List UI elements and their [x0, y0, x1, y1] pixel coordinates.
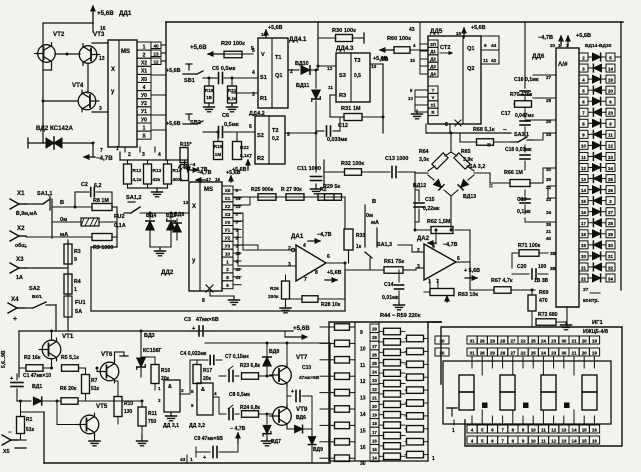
- svg-text:27: 27: [546, 75, 552, 80]
- wire R25-R27 net: [233, 196, 345, 198]
- label 0m: [60, 217, 67, 223]
- svg-text:2: 2: [417, 248, 420, 254]
- svg-text:3: 3: [288, 262, 291, 268]
- svg-text:22: 22: [372, 387, 377, 392]
- capacitor C14 label: [382, 282, 399, 301]
- svg-text:+5,6В: +5,6В: [471, 25, 486, 31]
- IC DD5 pin boxes: [428, 40, 438, 116]
- terminal X3: [10, 263, 26, 273]
- wire bottom rail: [44, 462, 330, 464]
- resistor R68 label: [473, 127, 507, 134]
- resistor R6 20k: [57, 398, 91, 405]
- ladder right resistors col2: [405, 335, 428, 458]
- svg-text:ВД14-ВД30: ВД14-ВД30: [585, 43, 612, 49]
- svg-text:ДД5: ДД5: [430, 28, 443, 35]
- diode VD8 label: [269, 349, 279, 355]
- svg-text:X1: X1: [141, 69, 147, 75]
- HG1 digit segments: [459, 375, 597, 410]
- svg-text:=: =: [489, 183, 493, 190]
- svg-text:20: 20: [582, 338, 587, 343]
- svg-text:+5,6В: +5,6В: [166, 121, 181, 127]
- resistor R23 label: [240, 363, 261, 369]
- svg-text:T3: T3: [354, 58, 361, 64]
- IC DD6 symbol: [558, 61, 568, 68]
- terminal X1: [10, 199, 26, 209]
- pins 17 16 BD2: [206, 177, 221, 182]
- svg-text:31: 31: [470, 338, 475, 343]
- wire top supply bus: [166, 21, 623, 23]
- capacitor C3 label: [184, 317, 219, 323]
- svg-text:R16: R16: [161, 368, 170, 374]
- svg-text:X: X: [111, 67, 115, 73]
- svg-text:+: +: [10, 376, 14, 382]
- zener VD11: [312, 90, 321, 101]
- svg-text:0,047мк: 0,047мк: [515, 113, 534, 119]
- svg-text:0,033мк: 0,033мк: [327, 137, 347, 143]
- svg-text:47мк×6В: 47мк×6В: [299, 375, 320, 381]
- capacitor C6: [219, 127, 223, 138]
- svg-text:19: 19: [372, 413, 377, 418]
- ground under R18: [204, 103, 215, 112]
- ladder right resistors col1: [379, 328, 405, 459]
- label 43 top: [409, 27, 415, 33]
- IC T1 body: [258, 38, 288, 108]
- capacitor C9 label: [194, 436, 223, 442]
- svg-text:1: 1: [190, 457, 193, 463]
- wire VD11 down: [315, 101, 317, 131]
- svg-text:ВД6: ВД6: [174, 212, 184, 218]
- IC BD1 y label: [111, 89, 115, 95]
- svg-text:8: 8: [226, 275, 229, 280]
- svg-text:С1 47мк×10: С1 47мк×10: [23, 373, 51, 379]
- svg-text:12: 12: [327, 66, 333, 72]
- ground under R21: [227, 103, 238, 112]
- wire VT3/VT4 collector bus to BD1: [92, 43, 108, 112]
- svg-text:КС156Г: КС156Г: [143, 348, 161, 354]
- logic gate DD3.1 label: [163, 423, 179, 429]
- svg-text:X2: X2: [225, 204, 231, 209]
- wire R72/R69 to HG1: [531, 322, 533, 327]
- svg-text:14: 14: [608, 66, 613, 71]
- transistor VT6 label: [101, 351, 113, 358]
- svg-text:30: 30: [561, 338, 566, 343]
- svg-text:T1: T1: [275, 55, 282, 61]
- IC BD1 X label: [111, 67, 115, 73]
- svg-text:13: 13: [153, 52, 159, 57]
- IC T3 body: [336, 53, 370, 102]
- wire C17 down: [524, 127, 526, 137]
- svg-text:С18 0,01мк: С18 0,01мк: [505, 147, 532, 153]
- svg-text:16: 16: [581, 210, 586, 215]
- power label +5,6V above DD6: [576, 33, 591, 39]
- svg-text:2: 2: [128, 152, 131, 158]
- IC DD6 left pin numbers: [546, 75, 552, 241]
- wire VT2/VT3 top rail: [43, 22, 93, 24]
- svg-text:R66 1М: R66 1М: [504, 170, 523, 176]
- op-amp DA1: [296, 245, 326, 281]
- svg-text:14: 14: [572, 427, 577, 432]
- capacitor C10 label: [299, 365, 320, 381]
- diode VD7 label: [271, 439, 281, 445]
- capacitor C4 label: [180, 351, 207, 357]
- svg-text:R2: R2: [257, 156, 264, 162]
- capacitor C2 label: [81, 182, 102, 189]
- wire R9 net: [26, 236, 92, 238]
- svg-text:R1: R1: [26, 417, 33, 423]
- svg-text:R 27 90к: R 27 90к: [281, 187, 302, 193]
- wire SA1.3 down: [369, 258, 371, 270]
- wire R72 net: [531, 311, 533, 322]
- power label +5,6V right of T3: [373, 56, 388, 62]
- resistor R18 1B: [205, 86, 214, 103]
- svg-text:В,9м,мА: В,9м,мА: [16, 211, 37, 217]
- pin 37 DD6: [583, 287, 600, 293]
- svg-text:30: 30: [608, 243, 613, 248]
- wire DA1 in-: [238, 265, 296, 267]
- capacitor C18: [520, 145, 530, 170]
- svg-text:контр.: контр.: [583, 298, 600, 304]
- svg-text:8: 8: [582, 122, 585, 127]
- svg-text:6: 6: [249, 124, 252, 130]
- label obsh: [15, 242, 28, 249]
- svg-text:23: 23: [551, 338, 556, 343]
- IC BD2 bottom X mark: [202, 285, 213, 304]
- svg-text:0,1мк: 0,1мк: [517, 209, 531, 215]
- ground DD3.1: [166, 412, 177, 421]
- resistor R31 label: [341, 106, 361, 112]
- svg-text:9: 9: [360, 330, 363, 336]
- svg-text:R71 100к: R71 100к: [518, 243, 541, 249]
- op-amp DA2: [424, 244, 456, 280]
- svg-text:12: 12: [360, 379, 366, 385]
- switch SA1.2: [124, 202, 140, 213]
- fuse FU1: [64, 296, 86, 317]
- svg-text:+: +: [291, 389, 294, 395]
- switch SA1.1: [26, 196, 50, 210]
- T3 pins: [327, 64, 377, 91]
- resistor group label R44-R59: [380, 313, 421, 319]
- svg-text:2: 2: [158, 398, 161, 403]
- svg-text:У2: У2: [141, 101, 147, 107]
- svg-text:&: &: [168, 384, 172, 390]
- svg-text:ВД11: ВД11: [296, 83, 309, 89]
- svg-text:10: 10: [531, 438, 536, 443]
- wire VT7 base: [271, 375, 274, 377]
- capacitor C11 label: [297, 166, 321, 172]
- IC BD1 body: [108, 40, 137, 147]
- wire DA1 out: [326, 262, 347, 265]
- svg-text:43: 43: [409, 27, 415, 33]
- svg-text:15: 15: [582, 438, 587, 443]
- svg-text:26: 26: [608, 188, 613, 193]
- svg-text:19: 19: [608, 77, 613, 82]
- wire left vertical bus: [165, 22, 167, 160]
- IC T2 labels: [257, 128, 279, 162]
- transistor VT2: [35, 43, 56, 65]
- resistor R60: [394, 47, 428, 54]
- svg-text:44: 44: [491, 43, 497, 49]
- svg-text:R33: R33: [356, 233, 365, 239]
- pin 5 T1: [251, 46, 254, 52]
- svg-text:130: 130: [124, 409, 133, 415]
- resistor R20 label: [221, 41, 245, 47]
- svg-text:25: 25: [531, 350, 536, 355]
- svg-text:7: 7: [501, 438, 504, 443]
- svg-text:VT9: VT9: [296, 406, 308, 413]
- svg-text:+5,6В: +5,6В: [327, 270, 342, 276]
- svg-text:−4,7В: −4,7В: [443, 242, 458, 248]
- wire row below DD5: [426, 124, 511, 133]
- svg-text:34: 34: [608, 276, 613, 281]
- IC DD2 label: [161, 269, 174, 276]
- diode VD9: [308, 429, 315, 463]
- svg-text:0,01мк: 0,01мк: [382, 295, 399, 301]
- svg-text:43к: 43к: [153, 177, 161, 183]
- capacitor C1 label: [23, 373, 51, 379]
- svg-text:+: +: [13, 316, 17, 323]
- svg-text:29: 29: [490, 350, 495, 355]
- svg-text:20: 20: [581, 254, 586, 259]
- svg-text:3,0к: 3,0к: [419, 157, 429, 163]
- wires into ladder: [320, 327, 329, 458]
- IC BD2 X label: [192, 204, 196, 210]
- svg-text:1: 1: [143, 44, 146, 50]
- button SB1: [183, 71, 203, 84]
- svg-text:5,1к: 5,1к: [228, 96, 237, 101]
- svg-text:4: 4: [413, 43, 416, 48]
- wire SB2 to T2 pin6: [203, 131, 255, 133]
- IC BD2 y label: [192, 258, 196, 264]
- resistor R70: [514, 101, 532, 108]
- svg-text:R70 470к: R70 470к: [510, 92, 533, 98]
- capacitor C14: [394, 270, 405, 310]
- svg-text:23: 23: [608, 111, 613, 116]
- transistor VT4 label: [72, 82, 84, 89]
- svg-text:12: 12: [581, 166, 586, 171]
- wire +5,6V feed to BD1 top: [91, 6, 95, 32]
- resistor R21 5,1k: [228, 86, 237, 103]
- svg-text:0,1А: 0,1А: [114, 223, 126, 229]
- svg-text:y: y: [111, 89, 115, 95]
- svg-text:24: 24: [541, 350, 546, 355]
- wire mid rail drop: [344, 270, 346, 311]
- svg-text:4: 4: [214, 391, 217, 396]
- svg-text:ВД3: ВД3: [144, 333, 155, 339]
- logic gate DD3.2 label: [189, 423, 205, 429]
- svg-text:41: 41: [236, 275, 241, 280]
- svg-text:3: 3: [582, 66, 585, 71]
- svg-text:Q2: Q2: [467, 66, 474, 72]
- wire R30 net: [318, 33, 364, 43]
- IC DD5 label: [430, 28, 443, 35]
- svg-text:X3: X3: [225, 212, 231, 217]
- svg-text:1: 1: [116, 146, 119, 152]
- label kontr: [583, 298, 600, 304]
- svg-text:23: 23: [372, 378, 377, 383]
- wire osc out to ladder: [310, 343, 330, 463]
- svg-text:5: 5: [252, 48, 255, 54]
- HG1 label: [583, 320, 608, 335]
- svg-text:R6 20к: R6 20к: [60, 386, 77, 392]
- capacitor C9: [196, 443, 238, 461]
- svg-text:25: 25: [608, 177, 613, 182]
- svg-text:С6: С6: [222, 113, 229, 119]
- zener VD5: [167, 212, 176, 248]
- svg-text:34: 34: [546, 210, 552, 215]
- svg-text:2: 2: [143, 53, 146, 59]
- svg-text:У3: У3: [225, 244, 231, 249]
- switch SA3.1: [511, 137, 533, 142]
- HG1 top pin rows: [467, 336, 600, 356]
- bridge R65 arm: [451, 152, 474, 171]
- resistor R71: [519, 250, 539, 257]
- DD5 bottom pin: [445, 120, 461, 133]
- svg-text:35: 35: [546, 222, 552, 227]
- diode group label VD14-VD30: [585, 43, 612, 49]
- resistor R72 label: [538, 312, 558, 318]
- svg-text:22: 22: [521, 338, 526, 343]
- DD6 top pins: [550, 36, 570, 48]
- svg-text:В: В: [60, 200, 64, 206]
- svg-text:ДА1: ДА1: [291, 233, 304, 240]
- svg-text:R69: R69: [539, 290, 549, 296]
- svg-text:0,5мк: 0,5мк: [224, 122, 239, 128]
- IC DD4.3 label: [336, 45, 354, 52]
- svg-text:−4,7В: −4,7В: [96, 155, 113, 162]
- wire left bus of VT2/VT4: [42, 23, 44, 143]
- svg-text:ДД1: ДД1: [119, 10, 132, 17]
- svg-text:SA1,2: SA1,2: [126, 195, 142, 201]
- svg-text:16: 16: [100, 26, 106, 32]
- resistor R7 51k: [82, 368, 100, 401]
- transistor VT3 label: [93, 31, 105, 38]
- IC BD2 body: [189, 182, 222, 291]
- resistor R6 label: [60, 386, 77, 392]
- svg-text:7: 7: [582, 111, 585, 116]
- resistor R2 16k: [19, 365, 52, 372]
- capacitor C3: [188, 326, 214, 336]
- svg-text:Х1: Х1: [17, 190, 25, 197]
- svg-text:10: 10: [531, 427, 536, 432]
- IC DD1 label: [119, 10, 132, 17]
- resistor R71 label: [518, 243, 541, 249]
- resistor R2 label: [24, 355, 41, 361]
- capacitor C15 label: [423, 197, 440, 212]
- ladder left numbers: [360, 330, 366, 467]
- IC BD1 MS label: [121, 49, 130, 55]
- capacitor C13: [392, 167, 415, 231]
- wire DA2 in+: [398, 245, 424, 252]
- IC DD6 right pin boxes: [579, 53, 588, 282]
- wire C8 net: [219, 397, 226, 414]
- svg-text:2: 2: [226, 267, 229, 272]
- svg-text:31: 31: [608, 254, 613, 259]
- resistor R69 label: [539, 290, 549, 304]
- svg-text:С20: С20: [517, 264, 527, 270]
- switch SA2 label: [29, 286, 43, 300]
- power label +5,6V at R20: [190, 44, 222, 56]
- svg-text:R12: R12: [133, 168, 142, 174]
- resistor R70 label: [510, 92, 533, 98]
- resistor R67 label: [491, 278, 513, 284]
- svg-text:20: 20: [608, 88, 613, 93]
- svg-text:С2: С2: [81, 182, 88, 188]
- wire VT1 emitter: [50, 359, 53, 370]
- svg-text:−4,7В: −4,7В: [197, 170, 212, 176]
- svg-text:FU2: FU2: [114, 214, 125, 220]
- svg-text:ВД1: ВД1: [32, 384, 42, 390]
- svg-text:9: 9: [582, 133, 585, 138]
- selector column SA1.1: [51, 199, 53, 238]
- resistor R22 5,1k: [233, 142, 250, 160]
- resistor R68: [477, 133, 494, 145]
- wire C19 to DD6: [525, 186, 556, 222]
- svg-text:+: +: [203, 455, 206, 461]
- power label -4,7V above BD2: [196, 170, 212, 182]
- resistor R30: [336, 35, 353, 42]
- svg-text:С16 0,1мк: С16 0,1мк: [514, 77, 539, 83]
- resistor R62: [431, 227, 453, 234]
- svg-text:3В: 3В: [550, 251, 557, 256]
- wire R66 to DD6: [543, 168, 556, 183]
- svg-text:− 4,7В: − 4,7В: [230, 426, 246, 432]
- IC T2 body: [255, 116, 285, 164]
- terminal X4 label: [11, 296, 19, 303]
- svg-text:R62 1,5М: R62 1,5М: [427, 219, 451, 225]
- svg-text:R3: R3: [339, 93, 346, 99]
- label mA meter: [371, 220, 379, 226]
- svg-text:5А: 5А: [75, 309, 82, 315]
- label = mark2: [487, 142, 491, 149]
- svg-text:13: 13: [561, 438, 566, 443]
- power label +5,6V left of DD5: [380, 57, 388, 63]
- svg-text:VT7: VT7: [296, 354, 308, 361]
- resistor R23: [242, 373, 273, 380]
- svg-text:4: 4: [432, 244, 435, 250]
- svg-text:1: 1: [432, 456, 435, 462]
- svg-text:R32 100к: R32 100к: [341, 161, 364, 167]
- svg-text:С13 1000: С13 1000: [385, 156, 408, 162]
- svg-text:мА: мА: [371, 220, 379, 226]
- bridge VD13 arm: [451, 175, 474, 196]
- svg-text:5: 5: [481, 438, 484, 443]
- button SB2: [183, 120, 203, 126]
- resistor R8: [92, 204, 112, 211]
- svg-text:0,2: 0,2: [272, 136, 279, 142]
- wire R26 stem: [285, 275, 287, 305]
- switch SA1.1 label: [37, 191, 53, 197]
- svg-text:27: 27: [372, 344, 377, 349]
- svg-text:47мк×6В: 47мк×6В: [196, 317, 219, 323]
- resistor R63: [430, 289, 454, 303]
- HG1 decimal points: [483, 403, 570, 408]
- svg-text:13: 13: [581, 177, 586, 182]
- svg-text:28: 28: [500, 350, 505, 355]
- svg-text:1А: 1А: [16, 275, 23, 281]
- svg-text:2: 2: [582, 55, 585, 60]
- IC DD5 CT2 label: [440, 45, 452, 54]
- resistor R9 label: [93, 245, 113, 251]
- wire R8 net: [52, 206, 92, 209]
- label mA: [60, 232, 68, 238]
- svg-text:У2: У2: [225, 236, 231, 241]
- svg-text:У0: У0: [141, 117, 147, 123]
- ground R11: [137, 435, 148, 446]
- IC DD5 body: [428, 36, 481, 124]
- svg-text:R18: R18: [205, 88, 214, 93]
- wire T3 pin10 out: [370, 64, 383, 133]
- diode VD1 label: [32, 384, 42, 390]
